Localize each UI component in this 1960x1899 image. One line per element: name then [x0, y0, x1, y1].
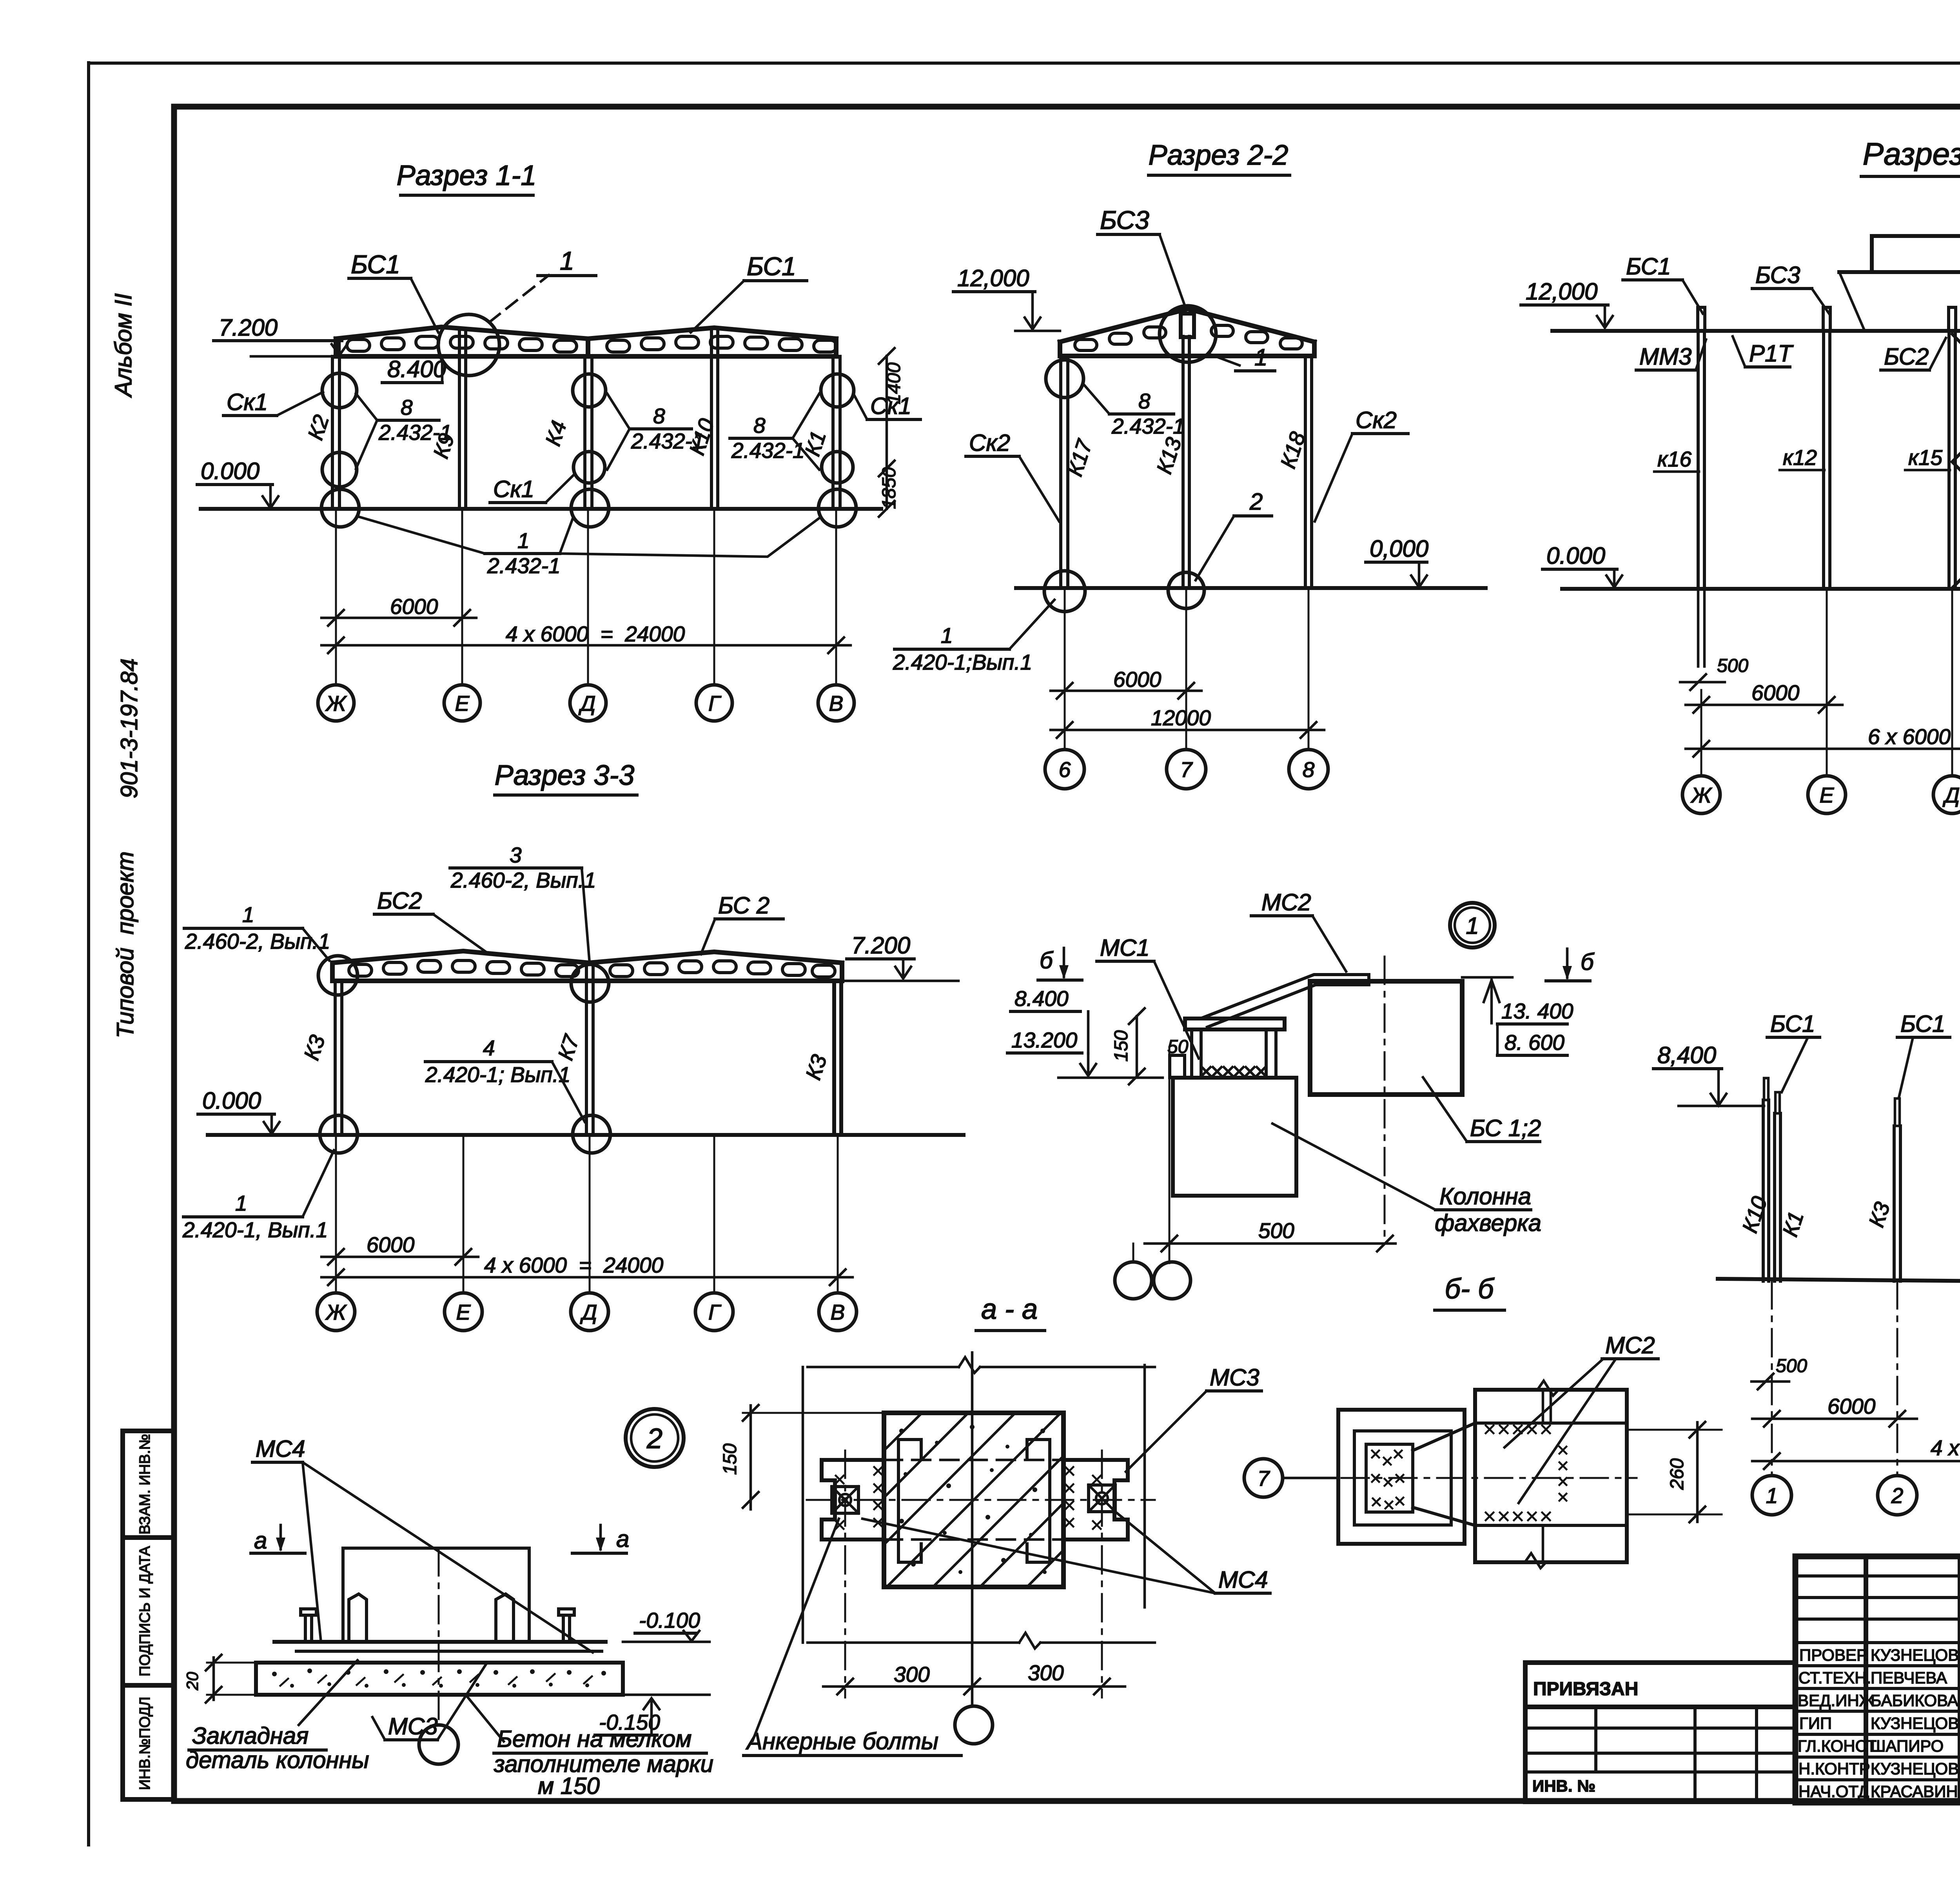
- svg-text:8: 8: [1303, 757, 1315, 782]
- svg-text:500: 500: [1258, 1218, 1294, 1243]
- gusset right: [496, 1594, 514, 1642]
- eaves line: [1552, 329, 1960, 333]
- svg-text:6000: 6000: [367, 1233, 415, 1257]
- top boundary line with break: [808, 1366, 959, 1369]
- break mark bottom: [1525, 1553, 1546, 1568]
- svg-text:БС3: БС3: [1100, 205, 1149, 234]
- svg-text:Г: Г: [708, 691, 722, 715]
- svg-text:2.460-2, Вып.1: 2.460-2, Вып.1: [185, 929, 330, 953]
- svg-text:БС2: БС2: [377, 888, 422, 914]
- svg-text:12000: 12000: [1151, 706, 1211, 730]
- svg-text:к15: к15: [1908, 445, 1943, 470]
- svg-text:ПРОВЕР.: ПРОВЕР.: [1799, 1646, 1869, 1664]
- beam holes left span: [349, 960, 579, 977]
- svg-text:0.000: 0.000: [201, 458, 260, 484]
- axis extensions: [1065, 588, 1308, 750]
- dim 24000: [321, 1276, 853, 1279]
- svg-text:8: 8: [653, 404, 665, 428]
- ridge stub BC3: [1181, 314, 1194, 337]
- panel joint verticals: [1542, 1390, 1544, 1423]
- axis bubble V: [819, 1293, 857, 1331]
- axis bubble 2: [1878, 1476, 1917, 1515]
- weld row top: [1486, 1425, 1550, 1433]
- gable beam bottom chord: [1060, 354, 1314, 358]
- anchor bolt right plan: [1089, 1485, 1115, 1512]
- plate hidden edges: [884, 1459, 1063, 1461]
- svg-text:4 х 6000 = 24000: 4 х 6000 = 24000: [484, 1253, 664, 1277]
- svg-text:2: 2: [1249, 488, 1263, 515]
- outer page border top: [89, 62, 1960, 65]
- svg-text:1: 1: [1254, 344, 1267, 370]
- level line 13.400: [1462, 976, 1512, 979]
- svg-text:150: 150: [1111, 1030, 1132, 1062]
- svg-text:Д: Д: [580, 1300, 597, 1324]
- column K3 axis 2: [1893, 1126, 1896, 1281]
- svg-text:8.400: 8.400: [1014, 986, 1069, 1011]
- svg-text:1: 1: [560, 246, 574, 275]
- column K15: [1947, 331, 1951, 589]
- axis bubble 8: [1289, 750, 1328, 789]
- svg-text:Ск1: Ск1: [227, 389, 268, 415]
- svg-text:Ж: Ж: [325, 691, 347, 715]
- bearing post left: [1192, 1029, 1201, 1078]
- column K3 left: [334, 981, 337, 1135]
- svg-text:1: 1: [941, 623, 953, 648]
- axis bubble 1: [1752, 1476, 1791, 1515]
- column K1: [1773, 1113, 1776, 1281]
- svg-text:а - а: а - а: [981, 1294, 1038, 1325]
- weld column right: [1559, 1447, 1566, 1501]
- axis bubble E: [1808, 776, 1846, 813]
- plate MC3 left part: [822, 1460, 884, 1540]
- fachwerk column body: [1173, 1078, 1296, 1196]
- svg-text:2.432-1: 2.432-1: [1111, 414, 1185, 438]
- svg-text:2: 2: [1891, 1483, 1904, 1508]
- svg-text:3: 3: [510, 843, 522, 867]
- svg-text:ШАПИРО: ШАПИРО: [1871, 1737, 1944, 1755]
- wall panel BC1;2: [1310, 981, 1462, 1095]
- svg-text:а: а: [254, 1527, 267, 1554]
- dim 500: [1169, 1047, 1171, 1263]
- svg-text:13.200: 13.200: [1011, 1028, 1078, 1052]
- privyazan grid columns: [1594, 1707, 1597, 1772]
- signature table rows: [1795, 1576, 1960, 1780]
- panel divider bottom: [1475, 1524, 1627, 1527]
- svg-text:8: 8: [401, 395, 413, 419]
- dim 6000: [1752, 1418, 1917, 1420]
- svg-text:1850: 1850: [879, 467, 900, 509]
- svg-text:БС3: БС3: [1755, 262, 1800, 288]
- axis bubble V: [818, 685, 854, 721]
- vertical centre axis: [971, 1353, 974, 1706]
- svg-text:КУЗНЕЦОВ: КУЗНЕЦОВ: [1871, 1646, 1959, 1664]
- wall column K3 right: [832, 981, 836, 1135]
- svg-text:ПЕВЧЕВА: ПЕВЧЕВА: [1871, 1668, 1947, 1687]
- column K10: [1762, 1100, 1765, 1281]
- svg-text:МС2: МС2: [1605, 1332, 1655, 1358]
- beam end plates: [334, 339, 338, 356]
- axis bubble Zh: [318, 685, 354, 721]
- MC1 angle stub: [1170, 1055, 1185, 1078]
- svg-text:Н.КОНТР: Н.КОНТР: [1798, 1759, 1870, 1778]
- dim 24000: [1752, 1460, 1960, 1463]
- joint circles column D: [573, 374, 606, 407]
- svg-text:8,400: 8,400: [1657, 1042, 1716, 1068]
- ground line 0.000: [1562, 587, 1960, 591]
- axis bubble Zh: [1682, 776, 1720, 813]
- roof beam bottom chord: [336, 354, 836, 359]
- dim 12000: [1051, 729, 1324, 732]
- column K2 axis Zh: [331, 356, 334, 509]
- svg-text:МС4: МС4: [1218, 1567, 1268, 1593]
- signature table verticals: [1864, 1556, 1868, 1803]
- column flange channel left: [898, 1440, 921, 1562]
- svg-text:НАЧ.ОТД: НАЧ.ОТД: [1798, 1782, 1869, 1801]
- bottom boundary line with break: [808, 1641, 1019, 1644]
- column K9 axis E: [458, 329, 461, 509]
- svg-text:Р1Т: Р1Т: [1749, 340, 1794, 367]
- svg-text:2.432-1: 2.432-1: [487, 554, 561, 578]
- svg-text:1: 1: [517, 528, 530, 553]
- svg-text:ПОДПИСЬ И ДАТА: ПОДПИСЬ И ДАТА: [137, 1546, 153, 1676]
- svg-text:7: 7: [1180, 757, 1193, 782]
- beam slab holes left span: [347, 336, 577, 352]
- svg-text:деталь колонны: деталь колонны: [186, 1747, 369, 1773]
- column K4 axis D: [583, 356, 586, 509]
- svg-text:6: 6: [1059, 757, 1071, 782]
- hatch lines: [884, 1413, 1063, 1587]
- svg-text:МС2: МС2: [1261, 889, 1311, 915]
- node 1 circle on beam: [438, 314, 499, 376]
- svg-text:к16: к16: [1657, 447, 1692, 471]
- joint circles column Zh: [322, 373, 357, 408]
- signature names: [1871, 1646, 1959, 1801]
- roof beam BC1 top chord: [336, 327, 836, 339]
- concrete speckles in pocket: [899, 1425, 1047, 1574]
- svg-text:500: 500: [1717, 655, 1748, 676]
- svg-text:1: 1: [1766, 1483, 1778, 1508]
- dim 6000: [1686, 704, 1842, 706]
- column K16 below grade: [1697, 589, 1700, 666]
- dim 6000: [1051, 690, 1201, 692]
- base circle left: [320, 1115, 358, 1153]
- svg-text:2.420-1, Вып.1: 2.420-1, Вып.1: [182, 1218, 328, 1242]
- base plate top line: [274, 1640, 606, 1644]
- svg-text:В: В: [829, 691, 844, 715]
- dim 260: [1627, 1429, 1722, 1431]
- joint circles column V: [821, 374, 854, 407]
- axis bubble E: [445, 1293, 482, 1331]
- signature roles: [1798, 1646, 1877, 1801]
- dim 150 vertical: [1136, 1016, 1138, 1077]
- axis extensions: [1701, 589, 1960, 775]
- svg-text:500: 500: [1776, 1356, 1807, 1376]
- axis bubble D: [570, 685, 606, 721]
- panel axis line: [1384, 957, 1386, 1242]
- svg-text:260: 260: [1667, 1458, 1688, 1490]
- svg-text:КУЗНЕЦОВ: КУЗНЕЦОВ: [1871, 1714, 1959, 1732]
- slab speckles: [272, 1668, 606, 1688]
- svg-text:Разрез 2-2: Разрез 2-2: [1149, 140, 1289, 171]
- boundary left vertical: [802, 1367, 804, 1643]
- svg-text:МС1: МС1: [1100, 935, 1150, 961]
- axis bubbles pair: [1115, 1262, 1152, 1299]
- base circle centre: [573, 1115, 610, 1153]
- beam slab holes right span: [607, 336, 837, 352]
- svg-text:Е: Е: [455, 691, 470, 715]
- weld marks inner pocket: [1372, 1451, 1403, 1509]
- right vertical dimension line: [886, 356, 888, 509]
- outer page border left: [87, 63, 90, 1845]
- column K7 centre: [585, 964, 588, 1135]
- column section inner pocket: [1366, 1444, 1413, 1512]
- horizontal centre axis: [807, 1499, 1155, 1501]
- column K12: [1822, 331, 1825, 589]
- svg-text:БС1: БС1: [747, 252, 796, 281]
- svg-text:6 х 6000 = 36000: 6 х 6000 = 36000: [1868, 724, 1960, 749]
- svg-text:300: 300: [1028, 1661, 1064, 1685]
- svg-text:Разрез 5-5: Разрез 5-5: [1863, 136, 1960, 171]
- ground line: [1718, 1279, 1960, 1284]
- svg-text:Д: Д: [1942, 783, 1960, 807]
- svg-text:20: 20: [183, 1672, 201, 1690]
- panel divider top: [1475, 1422, 1627, 1425]
- svg-text:Разрез 3-3: Разрез 3-3: [495, 760, 635, 791]
- base circle left: [1044, 571, 1085, 612]
- svg-text:Бетон на мелком: Бетон на мелком: [497, 1726, 691, 1752]
- svg-text:0.000: 0.000: [202, 1087, 261, 1114]
- svg-text:901-3-197.84: 901-3-197.84: [116, 659, 142, 799]
- node 1 leader: [1208, 354, 1240, 365]
- svg-text:7.200: 7.200: [219, 314, 278, 341]
- svg-text:8: 8: [753, 413, 766, 438]
- roof beam top chord: [332, 951, 842, 963]
- svg-text:6000: 6000: [1751, 681, 1800, 705]
- svg-text:1: 1: [242, 902, 254, 927]
- detail 1 bubble: [1450, 903, 1495, 948]
- weld marks left: [836, 1467, 882, 1529]
- ground line: [1016, 586, 1486, 590]
- svg-text:6000: 6000: [1113, 667, 1161, 692]
- axis circle bottom: [955, 1706, 993, 1744]
- svg-text:ММ3: ММ3: [1639, 343, 1691, 370]
- bearing post right: [1266, 1029, 1276, 1078]
- svg-text:к12: к12: [1783, 445, 1817, 470]
- svg-text:ИНВ. №: ИНВ. №: [1532, 1777, 1595, 1795]
- svg-text:КУЗНЕЦОВ: КУЗНЕЦОВ: [1871, 1759, 1959, 1778]
- svg-text:ПРИВЯЗАН: ПРИВЯЗАН: [1533, 1679, 1638, 1699]
- svg-text:4 х 6000 = 24000: 4 х 6000 = 24000: [506, 622, 685, 646]
- roof beam bottom chord: [332, 979, 842, 983]
- svg-text:2.420-1; Вып.1: 2.420-1; Вып.1: [425, 1062, 570, 1087]
- gable beam top chord: [1060, 309, 1314, 342]
- ground line: [208, 1133, 964, 1137]
- svg-text:ГИП: ГИП: [1799, 1714, 1832, 1732]
- svg-text:Е: Е: [1820, 783, 1835, 807]
- column K16: [1697, 331, 1700, 589]
- svg-text:13. 400: 13. 400: [1501, 999, 1573, 1023]
- svg-text:8. 600: 8. 600: [1504, 1030, 1564, 1055]
- svg-text:150: 150: [720, 1443, 740, 1475]
- svg-text:В: В: [831, 1300, 845, 1324]
- svg-text:1: 1: [235, 1191, 247, 1215]
- svg-text:2: 2: [646, 1423, 662, 1454]
- svg-text:БС2: БС2: [1884, 343, 1929, 370]
- dim 300 300: [823, 1685, 1125, 1688]
- brace upper X bay D-G: [1952, 334, 1960, 462]
- weld hatch on column top: [1202, 1067, 1265, 1076]
- anchor bolt left plan: [832, 1487, 858, 1513]
- svg-text:Закладная: Закладная: [192, 1723, 309, 1749]
- column section outer square: [1338, 1410, 1465, 1544]
- concrete pocket square: [884, 1413, 1063, 1587]
- svg-text:БС 2: БС 2: [718, 892, 769, 919]
- svg-text:Г: Г: [708, 1300, 722, 1324]
- svg-text:0,000: 0,000: [1370, 536, 1428, 562]
- privyazan box: [1525, 1663, 1795, 1802]
- svg-text:Типовой проект: Типовой проект: [112, 851, 138, 1038]
- svg-text:Разрез 1-1: Разрез 1-1: [397, 160, 537, 191]
- gusset left: [349, 1594, 367, 1642]
- crane runway P1 outline: [1872, 236, 1960, 272]
- bolt axis right: [1101, 1451, 1103, 1697]
- svg-text:СТ.ТЕХН.: СТ.ТЕХН.: [1798, 1668, 1871, 1687]
- svg-text:Е: Е: [456, 1300, 471, 1324]
- svg-text:а: а: [616, 1526, 629, 1552]
- below grade axis lines: [1772, 1281, 1960, 1475]
- title block outer box: [1795, 1556, 1960, 1803]
- svg-text:7: 7: [1258, 1466, 1270, 1491]
- svg-text:4: 4: [483, 1036, 495, 1060]
- dim 6000: [321, 1256, 478, 1258]
- svg-text:Ск1: Ск1: [493, 476, 534, 502]
- svg-text:Анкерные болты: Анкерные болты: [746, 1728, 938, 1754]
- privyazan divider: [1525, 1705, 1795, 1709]
- svg-text:4 х 6000 = 24000: 4 х 6000 = 24000: [1931, 1436, 1960, 1460]
- svg-text:БС1: БС1: [1626, 253, 1671, 280]
- funnel connector top: [1413, 1423, 1475, 1451]
- strip divider: [123, 1535, 174, 1540]
- svg-text:м 150: м 150: [538, 1773, 600, 1799]
- svg-text:Ж: Ж: [325, 1300, 347, 1324]
- svg-text:БС1: БС1: [351, 250, 400, 279]
- svg-text:БС1: БС1: [1900, 1011, 1945, 1037]
- centre axis through view: [1294, 1477, 1637, 1479]
- column axis: [438, 1548, 440, 1723]
- svg-text:БС 1;2: БС 1;2: [1470, 1115, 1541, 1141]
- svg-text:б: б: [1040, 947, 1054, 973]
- axis bubble 6: [1045, 750, 1084, 789]
- inventory strip box: [123, 1431, 174, 1799]
- weld row bottom: [1486, 1512, 1550, 1520]
- boundary right vertical: [1143, 1365, 1146, 1607]
- column top stubs: [1698, 307, 1960, 331]
- axis extensions: [336, 1135, 838, 1293]
- base circle centre: [1168, 572, 1204, 608]
- svg-text:6000: 6000: [1828, 1394, 1876, 1418]
- bolt axis left: [844, 1451, 846, 1697]
- column K1 axis V: [831, 356, 835, 509]
- column K10 axis G: [710, 329, 713, 509]
- svg-text:заполнителе марки: заполнителе марки: [494, 1751, 713, 1777]
- svg-text:Д: Д: [578, 691, 596, 715]
- top level line: [1058, 1077, 1163, 1079]
- svg-text:Альбом II: Альбом II: [110, 293, 136, 398]
- column K18: [1304, 356, 1307, 588]
- joint circle top left: [318, 956, 358, 995]
- svg-text:8.400: 8.400: [387, 356, 446, 382]
- axis bubble D: [571, 1293, 608, 1331]
- svg-text:300: 300: [894, 1662, 930, 1687]
- bearing plate: [1185, 1018, 1285, 1029]
- axis bubble G: [695, 1293, 733, 1331]
- dim 20 slab: [207, 1662, 256, 1664]
- svg-text:2.432-1: 2.432-1: [731, 438, 805, 463]
- svg-text:Колонна: Колонна: [1439, 1183, 1531, 1209]
- svg-text:БС1: БС1: [1770, 1011, 1815, 1037]
- svg-text:0.000: 0.000: [1546, 543, 1605, 569]
- weld marks right: [1065, 1467, 1101, 1529]
- column flange channel right: [1027, 1440, 1050, 1562]
- brace lower X bay D-G: [1952, 462, 1960, 588]
- svg-text:ГЛ.КОНСТ: ГЛ.КОНСТ: [1798, 1737, 1877, 1755]
- axis extension lines: [336, 509, 836, 685]
- svg-text:МС3: МС3: [1210, 1364, 1259, 1391]
- dim line 24000: [321, 644, 851, 647]
- svg-text:Ск2: Ск2: [1356, 407, 1397, 433]
- svg-text:-0.100: -0.100: [639, 1608, 700, 1632]
- column K17: [1059, 356, 1062, 588]
- svg-text:Ж: Ж: [1690, 783, 1713, 807]
- svg-text:ВЕД.ИНЖ: ВЕД.ИНЖ: [1798, 1691, 1875, 1710]
- svg-text:ИНВ.№ПОДЛ: ИНВ.№ПОДЛ: [137, 1697, 153, 1790]
- svg-text:8: 8: [1138, 389, 1151, 413]
- concrete slab: [256, 1663, 623, 1695]
- node 1 leader dashed: [489, 275, 549, 322]
- beam holes: [1075, 325, 1302, 350]
- joint circle left column: [1046, 360, 1083, 398]
- column section middle square: [1354, 1431, 1451, 1525]
- svg-text:1400: 1400: [884, 362, 904, 404]
- axis bubble G: [696, 685, 732, 721]
- dim 150: [743, 1412, 884, 1414]
- column K13: [1181, 336, 1185, 588]
- svg-text:2.420-1;Вып.1: 2.420-1;Вып.1: [893, 650, 1032, 674]
- svg-text:фахверка: фахверка: [1435, 1210, 1541, 1236]
- beam holes right span: [610, 961, 835, 977]
- svg-text:7.200: 7.200: [851, 932, 910, 959]
- ridge node circle: [1160, 306, 1216, 362]
- ground line: [201, 507, 881, 511]
- svg-text:БАБИКОВА: БАБИКОВА: [1871, 1691, 1958, 1710]
- break mark top: [1537, 1381, 1559, 1396]
- svg-text:2.460-2, Вып.1: 2.460-2, Вып.1: [450, 868, 596, 892]
- svg-text:б- б: б- б: [1445, 1273, 1495, 1305]
- svg-text:Ск2: Ск2: [969, 430, 1010, 456]
- svg-text:б: б: [1581, 949, 1595, 975]
- dim line 6000: [321, 617, 476, 619]
- svg-text:1: 1: [1466, 913, 1479, 939]
- axis bubble Zh: [317, 1293, 355, 1331]
- svg-text:12,000: 12,000: [1526, 278, 1598, 305]
- anchor bolt right: [563, 1615, 570, 1642]
- detail 2 bubble: [626, 1409, 684, 1467]
- strip divider: [123, 1683, 174, 1688]
- svg-text:МС4: МС4: [256, 1436, 305, 1462]
- privyazan grid rows: [1525, 1727, 1795, 1730]
- axis bubble E: [444, 685, 480, 721]
- svg-text:КРАСАВИН: КРАСАВИН: [1871, 1782, 1958, 1801]
